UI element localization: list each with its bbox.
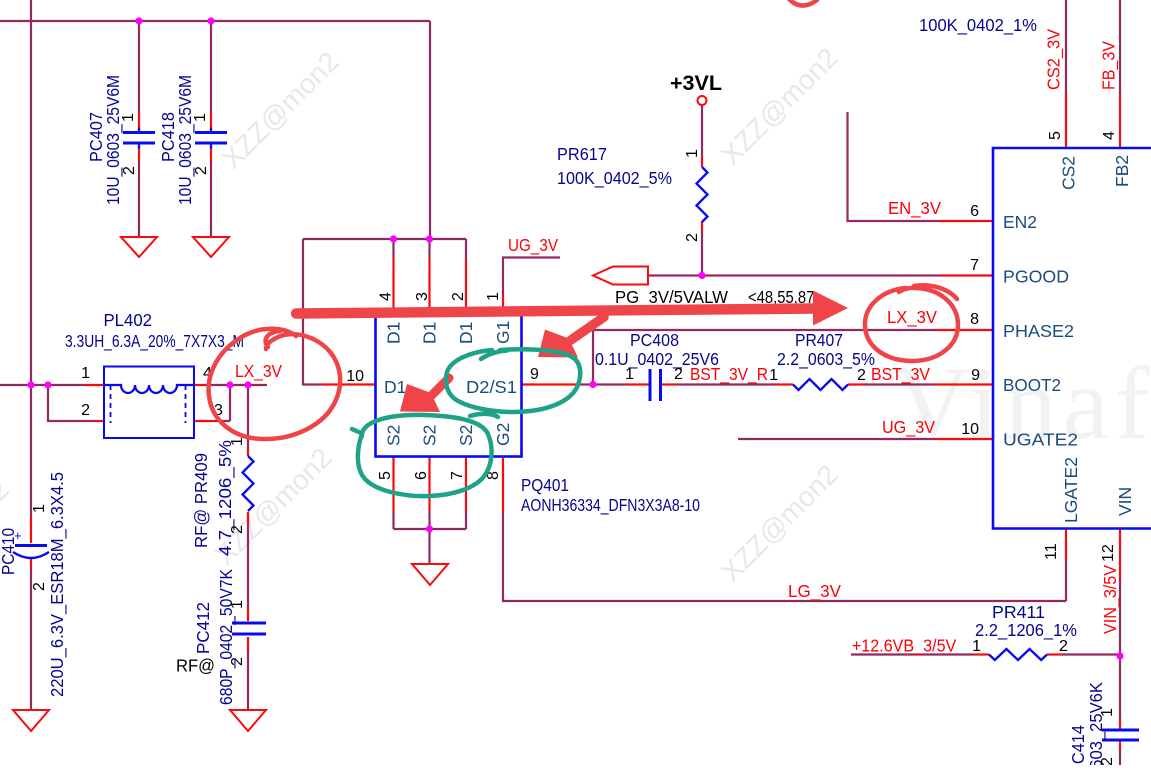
pin number PC412 2 xyxy=(229,657,246,666)
pin number PC410 1 xyxy=(31,504,48,513)
svg-text:3: 3 xyxy=(414,292,431,301)
svg-text:2: 2 xyxy=(1059,638,1068,655)
ground at PC407 xyxy=(121,237,157,257)
junction (139,21) xyxy=(135,17,142,24)
wire PL402 pin2 loop xyxy=(48,385,94,421)
svg-text:1: 1 xyxy=(485,292,502,301)
pin stub PQ401 pin5 xyxy=(392,457,394,512)
svg-text:100K_0402_1%: 100K_0402_1% xyxy=(919,15,1037,36)
svg-text:S2: S2 xyxy=(420,425,440,446)
pin stub PC407 pin1 xyxy=(138,112,140,131)
pin stub PQ401 pin10 xyxy=(322,383,376,385)
annotation red circle at PHASE2 LX_3V xyxy=(865,288,958,361)
svg-text:D1: D1 xyxy=(384,377,406,397)
wire PQ401 top connector xyxy=(303,238,466,240)
svg-text:FB_3V: FB_3V xyxy=(1099,41,1120,90)
svg-text:G1: G1 xyxy=(493,321,513,344)
svg-text:2: 2 xyxy=(857,367,866,384)
svg-text:2: 2 xyxy=(121,166,138,175)
svg-text:PC412: PC412 xyxy=(193,602,213,654)
pin stub IC CS2 pin5 xyxy=(1065,94,1067,148)
pin number PQ401 5 xyxy=(377,471,394,480)
svg-text:+12.6VB_3/5V: +12.6VB_3/5V xyxy=(852,636,957,657)
wire PQ401 pin10 bend xyxy=(303,239,322,385)
svg-text:5: 5 xyxy=(377,471,394,480)
svg-text:7: 7 xyxy=(970,257,979,274)
svg-text:4: 4 xyxy=(1101,131,1118,140)
watermark XZZ@mon2 top-right xyxy=(715,42,844,171)
wire FB_3V riser xyxy=(1119,0,1121,94)
svg-text:RF@ PR409: RF@ PR409 xyxy=(191,453,211,548)
svg-text:1: 1 xyxy=(192,113,209,122)
wire left rail lower xyxy=(30,568,32,710)
svg-text:LG_3V: LG_3V xyxy=(788,581,841,602)
wire +12.6VB net xyxy=(851,653,974,655)
pin name PQ401 D1 col2 xyxy=(456,322,476,344)
wire PC407 lower xyxy=(138,162,140,237)
pin stub PQ401 pin8 xyxy=(502,457,504,512)
pin name PQ401 G2 xyxy=(493,423,513,446)
pin number PQ401 2 xyxy=(450,292,467,301)
resistor PR409 xyxy=(243,456,254,511)
pin number PC414 1 xyxy=(1099,708,1116,717)
label PR409 value 4.7_1206_5% xyxy=(215,440,236,556)
annotation big red arrow head xyxy=(813,291,848,326)
watermark XZZ@mon2 bottom-right xyxy=(715,459,844,588)
svg-text:PC410: PC410 xyxy=(0,528,18,575)
pin stub PL402 pin2 xyxy=(94,420,104,422)
svg-text:2: 2 xyxy=(81,402,90,419)
wire PR411 to VIN node xyxy=(1062,653,1120,655)
pin number PR617 2 xyxy=(684,233,701,242)
transistor PQ401 body xyxy=(376,315,522,457)
wire PR617 lower to PGOOD xyxy=(701,231,703,276)
annotation teal oval top dash xyxy=(470,414,498,417)
svg-text:7: 7 xyxy=(449,471,466,480)
svg-text:BST_3V_R: BST_3V_R xyxy=(690,364,768,385)
svg-text:PC408: PC408 xyxy=(630,330,679,350)
svg-text:CS2: CS2 xyxy=(1059,156,1079,190)
svg-text:1: 1 xyxy=(81,365,90,382)
svg-text:UG_3V: UG_3V xyxy=(882,417,935,438)
svg-text:D2/S1: D2/S1 xyxy=(466,377,517,397)
pin stub PC410 pin2 xyxy=(30,558,32,568)
svg-text:10: 10 xyxy=(961,421,979,438)
pin stub IC PGOOD xyxy=(940,274,993,276)
pin number IC 12 xyxy=(1100,544,1117,562)
svg-text:D1: D1 xyxy=(384,322,404,344)
pin stub PQ401 pin1 xyxy=(502,294,504,315)
svg-text:UGATE2: UGATE2 xyxy=(1003,430,1078,450)
svg-text:PGOOD: PGOOD xyxy=(1003,267,1069,287)
label PC414 refdes xyxy=(1068,725,1088,770)
pin number PC414 2 xyxy=(1099,757,1116,766)
wire PQ401 pin3 upper xyxy=(428,239,430,258)
svg-text:EN_3V: EN_3V xyxy=(888,198,941,219)
svg-text:6: 6 xyxy=(413,471,430,480)
pin number PQ401 4 xyxy=(378,292,395,301)
svg-text:PHASE2: PHASE2 xyxy=(1003,321,1074,341)
pin stub PC410 pin1 xyxy=(30,517,32,543)
pin number PR409 1 xyxy=(229,437,246,446)
svg-text:PC414: PC414 xyxy=(1068,725,1088,765)
wire pin9 to junction xyxy=(576,383,627,385)
junction (48,385) xyxy=(44,381,51,388)
svg-text:LX_3V: LX_3V xyxy=(887,307,937,328)
capacitor PC407 xyxy=(123,128,155,149)
svg-text:10U_0603_25V6M: 10U_0603_25V6M xyxy=(103,75,124,205)
net label FB_3V xyxy=(1099,41,1120,90)
ground at PC418 xyxy=(193,237,229,257)
pin number PQ401 6 xyxy=(413,471,430,480)
ground at PC412 xyxy=(230,710,266,731)
junction (429.5,529) xyxy=(426,525,433,532)
pin stub PL402 pin1 xyxy=(85,384,104,386)
svg-text:1: 1 xyxy=(972,638,981,655)
resistor PR407 xyxy=(793,379,848,390)
label PC412 value 680P_0402_50V7K xyxy=(216,569,237,705)
wire PC418 lower xyxy=(210,162,212,237)
pin stub PR409 pin1 xyxy=(247,450,249,456)
junction (248,385) xyxy=(244,381,251,388)
svg-text:S2: S2 xyxy=(384,425,404,446)
annotation red circle at PL402 LX_3V xyxy=(209,329,341,439)
svg-text:0603_25V6K: 0603_25V6K xyxy=(1086,682,1107,765)
pin stub PQ401 pin4 xyxy=(392,258,394,315)
junction (1120,656) xyxy=(1116,652,1123,659)
pin stub PR617 pin2 xyxy=(701,221,703,231)
power symbol +3VL xyxy=(670,72,722,105)
label PC410 refdes xyxy=(0,528,18,575)
svg-text:PQ401: PQ401 xyxy=(521,475,569,495)
wire PQ401 pins 5-7 bottom connector xyxy=(394,511,467,529)
svg-text:EN2: EN2 xyxy=(1003,212,1037,232)
inductor PL402 xyxy=(104,367,194,439)
capacitor PC408 xyxy=(650,369,661,401)
pin stub PC418 pin2 xyxy=(210,146,212,163)
pin number PC418 1 xyxy=(192,113,209,122)
pin stub PQ401 pin7 xyxy=(465,457,467,512)
wire PC418 drop xyxy=(210,21,212,112)
svg-text:PR411: PR411 xyxy=(992,602,1045,622)
pin number IC 11 xyxy=(1043,543,1060,560)
watermark XZZ@mon2 top-left xyxy=(216,46,345,175)
svg-text:2: 2 xyxy=(674,366,683,383)
svg-text:2: 2 xyxy=(31,582,48,591)
svg-text:PL402: PL402 xyxy=(104,310,153,330)
svg-text:1: 1 xyxy=(31,504,48,513)
label PC410 value 220U_6.3V_ESR18M_6.3X4.5 xyxy=(47,472,68,697)
pin number PQ401 7 xyxy=(449,471,466,480)
svg-text:4.7_1206_5%: 4.7_1206_5% xyxy=(215,440,236,556)
svg-text:+3VL: +3VL xyxy=(670,72,722,95)
wire PR409 drop maroon xyxy=(247,385,249,450)
svg-text:LGATE2: LGATE2 xyxy=(1061,457,1081,523)
svg-text:1: 1 xyxy=(229,600,246,609)
off-page flag PG_3V/5VALW xyxy=(593,267,648,285)
svg-text:BST_3V: BST_3V xyxy=(871,364,930,385)
svg-text:BOOT2: BOOT2 xyxy=(1003,375,1061,395)
svg-text:FB2: FB2 xyxy=(1112,155,1132,187)
pin name IC CS2 xyxy=(1059,156,1079,190)
junction (393.5,239) xyxy=(390,235,397,242)
pin stub PR411 pin2 xyxy=(1047,653,1062,655)
junction (429.5,239) xyxy=(426,235,433,242)
annotation red arrow 2 at D2/S1 xyxy=(538,317,604,358)
wire PR617 upper xyxy=(701,105,703,157)
svg-text:2: 2 xyxy=(193,166,210,175)
wire PR409 to PC412 xyxy=(247,524,249,607)
svg-text:PR617: PR617 xyxy=(557,144,607,164)
pin number PQ401 1 xyxy=(485,292,502,301)
svg-text:2: 2 xyxy=(450,292,467,301)
pin stub IC BOOT2 xyxy=(935,383,993,385)
svg-text:6: 6 xyxy=(970,203,979,220)
resistor PR617 xyxy=(697,167,708,222)
pin stub PQ401 pin2 xyxy=(465,258,467,315)
svg-text:2: 2 xyxy=(1099,757,1116,765)
pin name IC LGATE2 xyxy=(1061,457,1081,523)
op-amp U1 controller IC body xyxy=(993,148,1151,529)
junction (31,385) xyxy=(27,381,34,388)
svg-text:D1: D1 xyxy=(420,322,440,344)
wire UG_3V net at UGATE2 xyxy=(738,438,935,440)
pin stub PC407 pin2 xyxy=(138,146,140,163)
svg-text:8: 8 xyxy=(970,311,979,328)
wire left rail upper xyxy=(30,0,32,517)
net label VIN_3/5V xyxy=(1100,565,1121,634)
net label CS2_3V xyxy=(1044,29,1065,90)
wire S2 connector to ground xyxy=(428,529,430,564)
wire UG_3V net at PQ401 pin1 xyxy=(503,258,560,295)
svg-text:UG_3V: UG_3V xyxy=(508,235,558,256)
pin name PQ401 S2 col7 xyxy=(456,425,476,446)
svg-text:VIN: VIN xyxy=(1115,487,1135,516)
pin name PQ401 S2 col6 xyxy=(420,425,440,446)
wire PHASE2 horizontal xyxy=(593,329,937,331)
pin name PQ401 S2 col5 xyxy=(384,425,404,446)
pin stub PC418 pin1 xyxy=(210,112,212,131)
wire PGOOD net xyxy=(648,274,940,276)
pin number IC 4 xyxy=(1101,131,1118,140)
annotation teal oval at S2 pins xyxy=(352,415,492,496)
pin number PC407 2 xyxy=(121,166,138,175)
pin stub PC408 pin2 xyxy=(662,383,677,385)
wire PC408 to PR407 xyxy=(676,383,775,385)
wire G2 to LG_3V xyxy=(503,511,1066,601)
pin number PR409 2 xyxy=(229,525,246,534)
label PC407 value 10U_0603_25V6M xyxy=(103,75,124,205)
pin stub PQ401 pin6 xyxy=(428,457,430,512)
svg-text:9: 9 xyxy=(530,366,539,383)
svg-text:4: 4 xyxy=(378,292,395,301)
watermark XZZ@mon2 bottom-left xyxy=(209,442,338,571)
label PC418 refdes xyxy=(158,112,178,162)
label PC418 value 10U_0603_25V6M xyxy=(175,75,196,205)
wire PQ401 pin2 upper xyxy=(465,239,467,258)
label PC407 refdes xyxy=(86,112,106,162)
pin stub PC414 pin2 xyxy=(1119,742,1121,749)
svg-text:RF@: RF@ xyxy=(176,656,215,676)
pin number PC412 1 xyxy=(229,600,246,609)
wire top bus xyxy=(0,20,430,22)
svg-text:1: 1 xyxy=(684,149,701,158)
svg-text:220U_6.3V_ESR18M_6.3X4.5: 220U_6.3V_ESR18M_6.3X4.5 xyxy=(47,472,68,697)
wire PHASE2 riser xyxy=(592,330,594,385)
pin name PQ401 G1 xyxy=(493,321,513,344)
svg-text:5: 5 xyxy=(1047,131,1064,140)
capacitor PC410 (polarized) xyxy=(13,528,49,558)
svg-text:10: 10 xyxy=(346,368,364,385)
pin stub PL402 pin3 xyxy=(194,420,215,422)
wire PL402 pin4 to LX_3V stub xyxy=(205,384,267,386)
annotation red circle hook xyxy=(266,331,280,347)
junction (211,21) xyxy=(207,17,214,24)
pin stub PC408 pin1 xyxy=(627,383,649,385)
annotation big red arrow shaft xyxy=(296,309,814,314)
pin name PQ401 D1 col3 xyxy=(420,322,440,344)
svg-text:12: 12 xyxy=(1100,544,1117,562)
wire PC407 drop xyxy=(138,21,140,112)
pin stub IC PHASE2 xyxy=(937,329,993,331)
pin number PR617 1 xyxy=(684,149,701,158)
pin stub IC VIN pin12 xyxy=(1119,529,1121,580)
wire VIN drop xyxy=(1119,579,1121,719)
svg-text:2: 2 xyxy=(684,233,701,242)
annotation teal tick xyxy=(481,351,507,360)
annotation red mark top edge xyxy=(788,0,817,6)
ground at PC410 xyxy=(13,710,49,731)
wire PR407 to BOOT2 xyxy=(866,383,935,385)
svg-text:3.3UH_6.3A_20%_7X7X3_M: 3.3UH_6.3A_20%_7X7X3_M xyxy=(65,331,244,352)
junction (702,275.5) xyxy=(698,272,705,279)
junction (230,385) xyxy=(226,381,233,388)
svg-text:AONH36334_DFN3X3A8-10: AONH36334_DFN3X3A8-10 xyxy=(521,495,700,516)
pin number PQ401 8 xyxy=(485,471,502,480)
pin stub IC FB2 pin4 xyxy=(1119,94,1121,148)
pin name IC FB2 xyxy=(1112,155,1132,187)
svg-text:CS2_3V: CS2_3V xyxy=(1044,29,1065,90)
annotation teal circle at D2/S1 xyxy=(446,349,580,412)
wire CS2_3V riser xyxy=(1065,0,1067,94)
pin stub PC414 pin1 xyxy=(1119,719,1121,729)
svg-text:1: 1 xyxy=(625,366,634,383)
capacitor PC414 xyxy=(1102,730,1139,740)
pin number PC418 2 xyxy=(193,166,210,175)
pin stub PC412 pin2 xyxy=(247,637,249,651)
svg-text:100K_0402_5%: 100K_0402_5% xyxy=(557,168,672,189)
svg-text:G2: G2 xyxy=(493,423,513,446)
pin name PQ401 D1 col4 xyxy=(384,322,404,344)
svg-text:1: 1 xyxy=(120,113,137,122)
pin stub PR407 pin1 xyxy=(775,383,793,385)
junction (593,384.5) xyxy=(589,381,596,388)
svg-text:1: 1 xyxy=(1099,708,1116,717)
capacitor PC418 xyxy=(195,128,227,149)
svg-text:9: 9 xyxy=(971,367,980,384)
pin stub PL402 pin4 xyxy=(194,384,205,386)
capacitor PC412 xyxy=(232,623,266,634)
label PC412 refdes xyxy=(193,602,213,654)
pin stub PR409 pin2 xyxy=(247,512,249,524)
pin number PQ401 3 xyxy=(414,292,431,301)
pin number PC410 2 xyxy=(31,582,48,591)
pin stub PQ401 pin9 xyxy=(522,383,577,385)
wire PQ401 pin4 upper xyxy=(392,239,394,258)
svg-text:VIN_3/5V: VIN_3/5V xyxy=(1100,565,1121,634)
svg-text:LX_3V: LX_3V xyxy=(235,361,282,382)
svg-text:1: 1 xyxy=(229,437,246,446)
pin stub PR411 pin1 xyxy=(974,653,989,655)
pin stub IC UGATE2 xyxy=(935,438,993,440)
svg-text:1: 1 xyxy=(769,367,778,384)
pin stub PR407 pin2 xyxy=(848,383,866,385)
wire pin11 riser xyxy=(1065,560,1067,601)
pin number IC 5 xyxy=(1047,131,1064,140)
wire PC412 to ground xyxy=(247,651,249,710)
wire PL402 pin3 loop xyxy=(215,385,230,421)
resistor PR411 xyxy=(989,649,1047,660)
watermark XZZ@mon2 left-edge partial xyxy=(0,474,15,603)
svg-text:10U_0603_25V6M: 10U_0603_25V6M xyxy=(175,75,196,205)
label PR409 refdes RF@ PR409 xyxy=(191,453,211,548)
pin name IC VIN xyxy=(1115,487,1135,516)
pin stub IC EN2 xyxy=(939,220,993,222)
wire top bus drop to PQ401 connector xyxy=(429,21,431,239)
pin stub PQ401 pin3 xyxy=(428,258,430,315)
pin stub IC LGATE2 pin11 xyxy=(1065,529,1067,561)
wire EN_3V net xyxy=(848,112,940,221)
label PC414 value 0603_25V6K xyxy=(1086,682,1107,770)
annotation red circle 2 tail xyxy=(914,285,957,299)
svg-text:2: 2 xyxy=(229,657,246,666)
pin stub PR617 pin1 xyxy=(701,157,703,167)
wire PC414 tail xyxy=(1119,748,1121,765)
svg-text:11: 11 xyxy=(1043,543,1060,560)
svg-text:2: 2 xyxy=(229,525,246,534)
pin stub PC412 pin1 xyxy=(247,607,249,621)
ground at PQ401 S2 xyxy=(412,564,448,585)
pin number PC407 1 xyxy=(120,113,137,122)
annotation red arrow 3 at D1 xyxy=(400,378,449,412)
svg-text:680P_0402_50V7K: 680P_0402_50V7K xyxy=(216,569,237,705)
wire LX_3V row left xyxy=(0,384,85,386)
svg-text:S2: S2 xyxy=(456,425,476,446)
svg-text:D1: D1 xyxy=(456,322,476,344)
svg-text:PR407: PR407 xyxy=(795,330,843,350)
